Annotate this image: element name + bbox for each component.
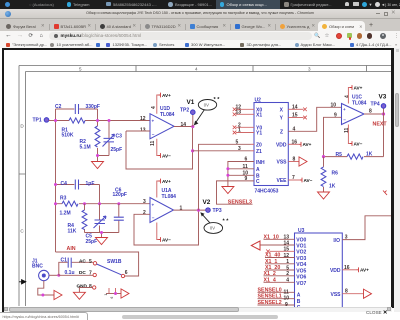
svg-text:8: 8	[89, 284, 92, 290]
op-amp U1A	[150, 198, 174, 223]
status url bubble	[0, 312, 88, 320]
U2 pin Y0 stub	[236, 126, 254, 128]
svg-text:15: 15	[292, 113, 298, 119]
svg-text:16: 16	[292, 139, 298, 145]
svg-text:SENSEL1: SENSEL1	[258, 294, 282, 300]
capacitor C1	[59, 262, 93, 275]
svg-text:VDD: VDD	[276, 142, 287, 148]
red mark near edge	[383, 191, 387, 196]
leader arrow V2	[202, 214, 210, 223]
svg-text:4: 4	[286, 278, 289, 284]
svg-text:Z0: Z0	[256, 142, 262, 148]
svg-text:11K: 11K	[68, 229, 77, 235]
test point TP3	[206, 208, 211, 213]
horizontal scrollbar	[4, 307, 392, 313]
svg-text:TL084: TL084	[160, 112, 175, 118]
svg-text:5: 5	[236, 139, 239, 145]
U1A supply pin4 + AV+	[157, 181, 159, 198]
balloon 0V for V2	[204, 223, 223, 234]
svg-text:X: X	[280, 107, 284, 113]
sheet frame outer	[19, 66, 391, 307]
node TP1	[44, 118, 49, 123]
U1D output wire	[174, 126, 193, 128]
U2 VSS stub + gnd arrow	[288, 161, 299, 163]
bottom ad bar	[122, 315, 278, 319]
svg-text:0V: 0V	[210, 226, 215, 231]
svg-text:3: 3	[143, 199, 146, 205]
wire V2 node up to Z0	[199, 144, 251, 210]
svg-text:R3: R3	[60, 196, 67, 202]
svg-text:13: 13	[140, 127, 146, 133]
connector J1 BNC	[39, 270, 49, 280]
wire node to Z1	[193, 150, 251, 152]
trim capacitor C3	[98, 121, 110, 156]
multiplexer U2	[254, 103, 288, 186]
svg-text:11: 11	[150, 140, 156, 146]
U3 row VO2 stub + nc cross	[270, 250, 295, 252]
svg-text:8: 8	[293, 157, 296, 163]
svg-text:13: 13	[236, 109, 242, 115]
svg-text:14: 14	[292, 104, 298, 110]
CLOSE button	[366, 310, 388, 316]
svg-text:1: 1	[286, 259, 289, 265]
sheet frame inner	[26, 72, 392, 307]
svg-text:4: 4	[345, 95, 351, 98]
svg-text:8: 8	[345, 289, 348, 295]
U1D supply pin 4 wire + AV+ flag	[157, 95, 159, 114]
wire left input rail	[55, 109, 57, 252]
svg-text:−: −	[343, 118, 346, 123]
svg-text:10: 10	[331, 103, 337, 109]
U2 pin Y1 stub	[236, 132, 254, 134]
svg-text:AV−: AV−	[162, 153, 171, 158]
U3 row VO0 wire + label X1_10	[264, 238, 295, 240]
ground below R2/C3	[97, 156, 99, 162]
svg-text:X1: X1	[256, 112, 262, 118]
resistor R4	[84, 204, 86, 233]
U1C supply pin 4 + AV+	[348, 88, 350, 104]
U1C pin9 wire down to R5/R6	[324, 117, 342, 156]
svg-text:7: 7	[292, 175, 295, 181]
svg-text:74HC4053: 74HC4053	[255, 188, 279, 194]
svg-text:AIN: AIN	[67, 246, 76, 252]
U1D pin13 wire	[126, 130, 150, 132]
svg-text:TP2: TP2	[180, 107, 189, 113]
svg-text:X1_40: X1_40	[265, 253, 280, 259]
svg-text:C: C	[20, 229, 24, 234]
svg-text:X1_10: X1_10	[264, 234, 279, 240]
svg-text:C: C	[256, 179, 260, 185]
U1A pin2 wire + feedback loop	[134, 210, 199, 245]
svg-text:11: 11	[344, 127, 350, 133]
svg-text:6: 6	[245, 157, 248, 163]
svg-text:7: 7	[89, 271, 92, 277]
svg-text:25pF: 25pF	[111, 147, 123, 153]
bookmarks bar	[0, 41, 400, 48]
svg-text:3: 3	[345, 235, 348, 241]
svg-text:* *: * *	[214, 97, 221, 103]
svg-text:1: 1	[104, 294, 108, 296]
svg-text:TP4: TP4	[371, 101, 380, 107]
attenuator bottom bus + ground	[85, 233, 119, 238]
svg-text:VO5: VO5	[296, 268, 306, 274]
svg-text:C2: C2	[55, 104, 62, 110]
leader arrow V1	[196, 110, 205, 123]
wire GND contact to ground	[79, 288, 92, 293]
svg-text:5: 5	[89, 259, 92, 265]
U1C output wire	[364, 113, 384, 115]
svg-text:R6: R6	[332, 171, 339, 177]
svg-text:25pF: 25pF	[86, 239, 98, 245]
svg-text:1K: 1K	[366, 151, 373, 157]
svg-text:Z1: Z1	[256, 149, 262, 155]
U3 row VO1 wire + page arrow	[260, 244, 295, 246]
wire TP1 to rail	[49, 120, 56, 122]
svg-text:C4: C4	[61, 181, 68, 187]
svg-text:C1: C1	[61, 257, 68, 263]
svg-text:1.2M: 1.2M	[60, 211, 71, 217]
svg-text:6: 6	[125, 270, 128, 276]
U2 pin X0 stub	[236, 108, 254, 110]
svg-text:INH: INH	[256, 160, 265, 166]
svg-text:Z: Z	[280, 129, 283, 135]
svg-text:−: −	[152, 132, 155, 137]
svg-text:1: 1	[238, 128, 241, 134]
junction dots top row	[54, 119, 57, 122]
U2 pin Z1	[251, 150, 255, 152]
resistor R3	[56, 203, 151, 205]
svg-text:4: 4	[195, 67, 198, 72]
svg-text:V1: V1	[187, 99, 195, 106]
switch pins 1/6 stubs to gnd flag	[109, 288, 116, 294]
U3 row C wire + label SENSEL2	[258, 304, 295, 306]
U2 pin INH wire to gnd	[228, 162, 254, 187]
svg-text:330pF: 330pF	[86, 104, 100, 110]
U2 right pin Z wire to U1C	[288, 107, 341, 131]
svg-text:12: 12	[140, 116, 146, 122]
svg-text:AV−: AV−	[162, 237, 171, 242]
op-amp U1D	[150, 114, 174, 139]
svg-text:A: A	[297, 293, 301, 299]
svg-text:X1_2: X1_2	[264, 271, 276, 277]
svg-text:X1_4: X1_4	[264, 277, 276, 283]
switch blade	[97, 264, 122, 275]
svg-text:Y: Y	[280, 116, 284, 122]
svg-text:SENSEL0: SENSEL0	[258, 287, 282, 293]
svg-text:SENSEL2: SENSEL2	[258, 300, 282, 306]
U3 row VO4 wire + label X1_1	[265, 263, 295, 265]
svg-text:VO2: VO2	[296, 250, 306, 256]
svg-text:AC: AC	[79, 258, 86, 263]
U2 right pin Y	[288, 117, 303, 119]
svg-text:3: 3	[238, 146, 241, 152]
svg-text:AV+: AV+	[303, 142, 312, 147]
U2 pin A wire	[228, 168, 254, 170]
frame ticks	[19, 66, 367, 175]
U1D supply pin 11 wire + AV- flag	[157, 139, 159, 156]
svg-text:VSS: VSS	[330, 292, 341, 298]
svg-text:TP1: TP1	[33, 118, 42, 124]
capacitor C2	[56, 109, 98, 121]
svg-text:VO4: VO4	[296, 262, 306, 268]
svg-text:11: 11	[243, 164, 249, 170]
svg-text:AV+: AV+	[162, 179, 171, 184]
balloon 0V for V1	[198, 100, 216, 111]
svg-text:12: 12	[284, 253, 290, 259]
svg-text:SW1B: SW1B	[107, 259, 122, 265]
resistor R1	[56, 120, 151, 122]
U3 row VO6 wire + label X1_2	[264, 275, 295, 277]
svg-text:Y1: Y1	[256, 131, 262, 137]
svg-text:VO6: VO6	[296, 275, 306, 281]
svg-text:−: −	[152, 216, 155, 221]
resistor R6	[323, 157, 325, 192]
svg-text:2: 2	[286, 271, 289, 277]
U2 pin Z0	[251, 143, 255, 145]
svg-text:TL084: TL084	[352, 100, 367, 106]
svg-text:+: +	[152, 202, 155, 207]
svg-text:V2: V2	[203, 199, 211, 206]
U3 row A wire + label SENSEL0	[258, 291, 295, 293]
svg-text:1K: 1K	[329, 183, 336, 189]
tab strip	[0, 19, 400, 31]
U3 row VO5 wire + label X1_20	[265, 269, 295, 271]
ground below R6	[318, 192, 330, 199]
U2 pin X1 stub	[236, 113, 254, 115]
capacitor C6	[118, 204, 120, 233]
U1C supply pin 11 + AV-	[348, 125, 350, 144]
switch SW1B contacts	[93, 262, 96, 265]
U2 pin B wire	[228, 174, 254, 176]
svg-text:BNC: BNC	[32, 264, 43, 270]
svg-text:AV+: AV+	[354, 85, 363, 90]
svg-text:DC: DC	[79, 270, 86, 275]
svg-text:5: 5	[79, 67, 82, 72]
wire DC path	[59, 274, 93, 276]
svg-text:1pF: 1pF	[86, 181, 95, 187]
svg-text:9: 9	[245, 176, 248, 182]
svg-text:0V: 0V	[204, 103, 209, 108]
svg-text:TL084: TL084	[162, 194, 177, 200]
wire AIN	[56, 252, 139, 276]
svg-text:VDD: VDD	[330, 268, 341, 274]
resistor R2	[97, 121, 99, 156]
svg-text:11: 11	[284, 289, 290, 295]
svg-text:AV+: AV+	[162, 93, 171, 98]
chromium title bar	[0, 9, 400, 19]
svg-text:+: +	[343, 107, 346, 112]
mouse cursor	[19, 280, 26, 284]
svg-text:510K: 510K	[62, 133, 74, 139]
svg-text:AV−: AV−	[354, 141, 363, 146]
io expander U3	[295, 233, 343, 308]
svg-text:U3: U3	[298, 228, 305, 234]
svg-text:V3: V3	[379, 93, 387, 100]
U3 row VO7 wire + label X1_4	[264, 281, 295, 283]
svg-text:6: 6	[110, 297, 114, 299]
test point TP4	[383, 108, 385, 114]
op-amp U1C	[342, 104, 365, 125]
ground INH/A/B	[222, 187, 234, 194]
svg-text:VO3: VO3	[296, 256, 306, 262]
svg-text:SENSEL3: SENSEL3	[228, 199, 252, 205]
svg-text:120pF: 120pF	[113, 192, 127, 198]
svg-text:I/O: I/O	[333, 238, 340, 244]
image borders	[2, 48, 392, 50]
svg-text:3: 3	[308, 67, 311, 72]
U2 VDD stub + AV+	[288, 143, 299, 145]
svg-text:4: 4	[293, 126, 296, 132]
node V1 out	[191, 125, 194, 128]
svg-text:VSS: VSS	[276, 160, 287, 166]
svg-text:VO1: VO1	[296, 243, 306, 249]
svg-text:A: A	[256, 167, 260, 173]
svg-text:U2: U2	[255, 98, 262, 104]
svg-text:R5: R5	[336, 152, 343, 158]
svg-text:VEE: VEE	[276, 178, 287, 184]
svg-text:TP3: TP3	[213, 208, 222, 214]
svg-text:4: 4	[151, 106, 157, 109]
svg-text:NEXT: NEXT	[373, 122, 388, 128]
svg-text:AV+: AV+	[360, 268, 369, 273]
vertical scrollbar	[394, 48, 400, 312]
U3 pin I/O wire up right	[342, 216, 391, 240]
svg-text:15: 15	[284, 247, 290, 253]
svg-text:2: 2	[143, 210, 146, 216]
toolbar	[0, 31, 400, 41]
svg-text:AV−: AV−	[304, 178, 313, 183]
test point TP2	[192, 114, 194, 126]
svg-text:C3: C3	[116, 134, 123, 140]
U3 VSS stub + gnd arrow	[342, 293, 363, 295]
U2 pin C wire to SENSEL3	[217, 181, 255, 204]
svg-text:16: 16	[344, 265, 350, 271]
U2 VEE stub + AV-	[288, 179, 300, 181]
svg-text:+: +	[152, 119, 155, 124]
desktop top panel	[0, 0, 400, 9]
svg-text:5.1M: 5.1M	[80, 145, 91, 151]
svg-text:D: D	[20, 124, 24, 129]
trim capacitor C5	[99, 204, 101, 233]
svg-text:* *: * *	[223, 219, 230, 225]
U2 right pin X	[288, 108, 303, 110]
feedback wire V3 to R5	[364, 114, 384, 157]
capacitor C4	[56, 185, 100, 204]
svg-text:VO7: VO7	[296, 281, 306, 287]
U1D feedback loop	[126, 127, 193, 170]
U1A supply pin11 + AV-	[157, 223, 159, 240]
svg-text:B: B	[297, 299, 301, 305]
svg-text:10: 10	[284, 296, 290, 302]
svg-text:8: 8	[369, 108, 372, 114]
U3 row VO3 wire + label X1_40	[265, 257, 295, 259]
svg-text:X1_1: X1_1	[265, 259, 277, 265]
U1A output wire	[174, 209, 207, 211]
svg-text:14: 14	[284, 240, 290, 246]
U3 VDD stub + AV+	[342, 269, 356, 271]
resistor R5	[347, 154, 363, 159]
BNC shield to ground flag	[38, 281, 54, 295]
U3 row B wire + label SENSEL1	[258, 298, 295, 300]
wire BNC center	[49, 274, 59, 276]
